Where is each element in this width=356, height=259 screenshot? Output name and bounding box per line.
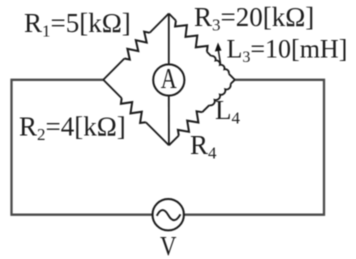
svg-text:R4: R4 [190, 130, 217, 163]
resistor R1 [124, 32, 149, 60]
resistor R2 [121, 98, 146, 123]
resistor R3 [175, 21, 208, 52]
wire: top vertex to R3 [169, 14, 176, 21]
inductor L3 [211, 56, 229, 74]
wire: outer loop (left feed, left edge, bottom rail, right edge, right feed) [12, 80, 325, 215]
wire: right vertex to L4 [231, 80, 235, 84]
svg-text:V: V [160, 231, 177, 259]
inductor L4 [209, 84, 230, 105]
svg-text:R1=5[kΩ]: R1=5[kΩ] [24, 8, 131, 41]
resistor R4 [178, 111, 202, 135]
wire: R1 to top vertex [150, 14, 169, 33]
arrow: variable mark on L3 [215, 43, 222, 64]
wire: left vertex to R2 [103, 80, 121, 98]
wire: R4 to bottom vertex [169, 136, 179, 146]
svg-text:R2=4[kΩ]: R2=4[kΩ] [19, 112, 126, 145]
svg-text:L4: L4 [215, 95, 241, 128]
wire: detector branch top (top vertex to ammeter) [168, 14, 170, 65]
svg-text:A: A [161, 64, 178, 95]
wire: arm stub Lv to R1 [103, 59, 124, 80]
wire: L4 to R4 [202, 105, 209, 112]
source V (AC) [153, 199, 184, 230]
svg-text:L3=10[mH]: L3=10[mH] [227, 35, 348, 67]
ammeter U1 [153, 64, 184, 96]
wire: R2 to bottom vertex [146, 122, 169, 145]
svg-text:R3=20[kΩ]: R3=20[kΩ] [194, 2, 314, 35]
wire: R3 to L3 [207, 52, 211, 56]
wire: detector branch bottom (ammeter to bottom vertex) [168, 96, 170, 146]
wire: L3 to right vertex [229, 74, 235, 80]
